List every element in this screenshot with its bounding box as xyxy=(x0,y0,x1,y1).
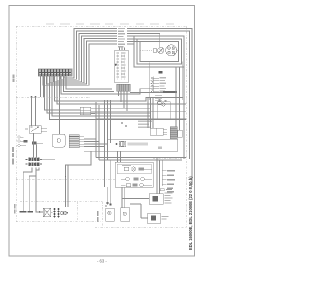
wire harness loop 5 xyxy=(50,39,117,83)
small pump circle xyxy=(158,47,164,53)
generator G2 xyxy=(63,211,66,214)
starter motor M1 xyxy=(61,211,64,214)
fuse bar B xyxy=(32,142,37,145)
lamp row 3 lead xyxy=(121,184,152,186)
glow circle right stub xyxy=(177,49,179,51)
mid horizontal wire 2 xyxy=(96,115,150,117)
plug to bar wire xyxy=(130,92,163,94)
bus wire 6 xyxy=(47,76,151,113)
fuse F1 xyxy=(18,136,20,138)
terminal box pin columns xyxy=(118,53,125,80)
S2 leads xyxy=(122,187,125,208)
regulator connector hatched xyxy=(170,127,177,139)
K2 pins xyxy=(91,109,187,114)
lamp row 1 lead xyxy=(144,168,152,170)
hour counter P1 xyxy=(149,194,163,205)
bus wire 7 xyxy=(52,76,151,116)
lamp row 1 box xyxy=(139,168,145,171)
bottom cluster lead long xyxy=(66,151,92,207)
glow plug pins xyxy=(168,47,171,50)
relay feed wire 2 xyxy=(35,97,37,126)
lamp row 2 dark box xyxy=(134,178,139,181)
dashed boundary bottom right xyxy=(95,227,186,229)
junction dot 2 xyxy=(35,96,37,98)
engine terminal box xyxy=(115,50,129,83)
S10 rotor striped xyxy=(119,141,126,146)
X5 side lobes xyxy=(26,159,42,164)
dashed boundary left xyxy=(15,26,17,222)
label column drop wires xyxy=(120,48,125,51)
page border xyxy=(9,6,195,257)
terminal text row 3 xyxy=(138,127,151,128)
lamp L2 xyxy=(141,177,145,181)
mid relay K3 xyxy=(150,128,163,135)
lamp row 2 circle a xyxy=(126,177,130,181)
P2 wire xyxy=(130,204,148,218)
long vertical wire b xyxy=(107,100,109,160)
right box xyxy=(157,102,170,120)
battery junction dot xyxy=(39,211,41,213)
solenoid X mark xyxy=(43,208,50,217)
fuse bar B lead xyxy=(37,142,43,144)
lamp row 1 resistor xyxy=(124,167,129,170)
pin-grid connector X6 xyxy=(54,208,60,217)
lamp row 3 box xyxy=(126,184,131,187)
engine plug hatched xyxy=(117,84,131,91)
X4 stripes xyxy=(69,137,79,146)
dashed boundary top xyxy=(16,25,186,27)
long vertical wire a xyxy=(104,100,106,187)
P2 labels xyxy=(162,216,169,217)
label SICHERUNG xyxy=(97,211,99,222)
starter relay K1 xyxy=(29,126,41,134)
battery compartment dashed right xyxy=(101,202,103,228)
X4 pin arrows xyxy=(79,137,84,147)
relay terminal 2 xyxy=(37,126,39,128)
ignition switch S10 box xyxy=(108,139,178,151)
sender dashed lead xyxy=(140,50,153,52)
bus drop to P1 wire 2 xyxy=(159,160,161,194)
right lower terminal ladder spine xyxy=(161,163,163,186)
right vertical wire 4 xyxy=(189,150,191,159)
X4 to panel wire 1 xyxy=(84,138,96,140)
dash-dot divider right xyxy=(153,158,186,160)
lamp L1 xyxy=(131,167,135,171)
lamp panel label xyxy=(122,165,131,166)
dash-dot divider mid xyxy=(16,179,115,181)
S2 element xyxy=(123,212,126,215)
X4 to panel wire 4 xyxy=(84,146,104,148)
S1 top connector marks xyxy=(106,202,108,204)
right terminal ladder arrows xyxy=(151,77,159,93)
dashed boundary right xyxy=(185,26,187,228)
K3 feed wires xyxy=(148,98,153,129)
bus wire 8 xyxy=(50,76,187,120)
X4 to panel wire 3 xyxy=(84,143,108,145)
engine cluster box mid xyxy=(127,39,182,64)
bus wire 3 xyxy=(66,76,112,89)
glow pin dots xyxy=(169,48,174,53)
relay feed wire 1 xyxy=(31,97,33,126)
lamp row 3 dark box xyxy=(133,184,138,187)
fuse bar A xyxy=(24,140,28,143)
right vertical wire 3 xyxy=(183,67,185,159)
X5 step wire 1 xyxy=(23,168,32,212)
engine cluster box outer xyxy=(127,36,184,67)
pump spokes xyxy=(159,48,163,52)
sender small rect xyxy=(153,49,157,52)
right vertical wire 2 xyxy=(179,67,181,130)
connector strip X1 xyxy=(38,69,72,76)
terminal ladder labels xyxy=(160,77,167,92)
fuse holder S2 xyxy=(121,208,130,222)
control module A2 xyxy=(53,134,66,147)
connector stub left 1 xyxy=(40,76,42,97)
bus wire 4 xyxy=(55,76,183,101)
S10 label bar xyxy=(128,143,149,146)
bottom cluster lead short xyxy=(67,165,69,207)
terminal box dot xyxy=(115,64,117,66)
right lower terminal rows xyxy=(162,171,166,184)
X5 top leads xyxy=(34,133,37,158)
right vertical wire 1 xyxy=(175,67,177,127)
S1 element xyxy=(108,211,111,214)
S1 leads xyxy=(108,160,111,205)
bus wire 1 xyxy=(61,76,151,94)
mid horizontal wire 1 xyxy=(96,112,150,114)
fuse holder S1 xyxy=(106,208,115,221)
plug stripes xyxy=(119,84,128,91)
right bus bar xyxy=(163,91,177,93)
right component circles xyxy=(158,101,162,105)
lamp panel inner box xyxy=(117,164,151,174)
module center hole xyxy=(57,139,61,143)
bottom cluster dot xyxy=(65,176,67,178)
terminal box inner labels xyxy=(117,53,126,78)
glow plug connector circle xyxy=(166,45,177,56)
hour counter P2 xyxy=(148,213,161,224)
wire harness loop 3 xyxy=(57,34,117,81)
wire harness loop 4 xyxy=(54,36,118,82)
fuse wires xyxy=(20,137,26,146)
engine lower box xyxy=(149,62,183,101)
instrument bus wire 1 xyxy=(96,157,186,159)
X5 right stub wire xyxy=(40,159,55,161)
plug fan wire 4 xyxy=(126,91,128,111)
relay terminal 1 xyxy=(31,126,33,128)
battery compartment dashed top xyxy=(20,201,102,203)
relay switch lever xyxy=(31,127,39,132)
top wire tag marks xyxy=(46,23,174,24)
wire harness loop 7 xyxy=(43,44,134,85)
dashed boundary bottom left xyxy=(16,221,102,223)
S10 drop wires xyxy=(118,151,121,162)
plug fan wire 2 xyxy=(120,91,122,102)
bus wire 2 xyxy=(64,76,115,92)
engine cluster box inner xyxy=(127,42,179,62)
svg-text:EDL 16000E, EDL 21000E (22 0 8: EDL 16000E, EDL 21000E (22 0 8,50 h) xyxy=(188,176,193,250)
bus drop to P1 wire 1 xyxy=(156,158,158,194)
S10 terminal dot xyxy=(116,143,118,145)
solenoid box with X xyxy=(43,208,50,217)
panel bottom wire xyxy=(84,150,108,152)
mid riser a xyxy=(95,102,97,158)
X5 step wire 2 xyxy=(29,168,36,212)
svg-text:- 63 -: - 63 - xyxy=(97,259,107,264)
instrument bus wire 2 xyxy=(99,159,182,161)
module feed wire xyxy=(59,76,61,134)
long vertical wire c xyxy=(110,100,112,143)
fuse F3 xyxy=(18,144,20,146)
right lower misc marks xyxy=(160,189,164,191)
relay pins right xyxy=(41,129,47,132)
left label KOMBIINSTRUMENT xyxy=(12,147,14,164)
junction x marks xyxy=(121,122,127,127)
battery G1 plate 1 xyxy=(20,211,27,213)
plug fan wire 3 xyxy=(123,91,125,108)
fuse F2 xyxy=(18,140,20,142)
sensor mark top xyxy=(159,71,163,74)
striped connector X4 xyxy=(69,135,79,148)
relay label xyxy=(25,129,28,130)
solenoid link xyxy=(51,211,53,213)
lamp row 2 lead xyxy=(121,178,152,180)
X5 step wire 3 xyxy=(36,168,43,213)
K2 inner bar xyxy=(80,107,91,115)
battery compartment dashed divider xyxy=(76,202,78,222)
terminal text row 1 xyxy=(138,121,152,122)
box left wire xyxy=(146,118,157,120)
plug fan wire 1 xyxy=(118,91,120,96)
X4 to panel wire 2 xyxy=(84,141,99,143)
mid horizontal wire 3 xyxy=(96,118,186,120)
lamp L3 xyxy=(140,183,144,187)
divider dash-dot engine xyxy=(16,96,90,98)
P1 labels xyxy=(165,193,173,204)
regulator stripes xyxy=(170,129,177,137)
crossed multipole connector X5 xyxy=(28,158,39,166)
right circles top marks xyxy=(159,99,161,100)
wire label column xyxy=(118,28,125,47)
P1 window xyxy=(153,196,159,202)
left label MOTORSEITE xyxy=(13,75,15,83)
bus wire 9 xyxy=(45,76,81,110)
right lower terminals xyxy=(155,96,162,101)
regulator side box xyxy=(178,130,183,137)
S10 F label xyxy=(158,147,162,150)
K3 pins xyxy=(163,130,167,135)
connector stub left 2 xyxy=(43,76,45,97)
wire harness loop 2 xyxy=(61,31,118,79)
junction dot 1 xyxy=(31,96,33,98)
wire harness loop 1 xyxy=(64,29,117,79)
mid riser b xyxy=(98,105,100,160)
left label NOTSTART xyxy=(14,204,16,214)
wire harness loop 6 xyxy=(47,41,118,84)
battery G1 plate 2 xyxy=(28,211,34,213)
bus wire 5 xyxy=(57,76,186,104)
aux relay K2 xyxy=(80,107,91,115)
P2 window xyxy=(151,216,156,221)
P1 wire xyxy=(122,198,149,200)
K3 divider xyxy=(156,128,158,135)
terminal text row 2 xyxy=(138,124,149,125)
lamp panel box xyxy=(115,162,153,187)
